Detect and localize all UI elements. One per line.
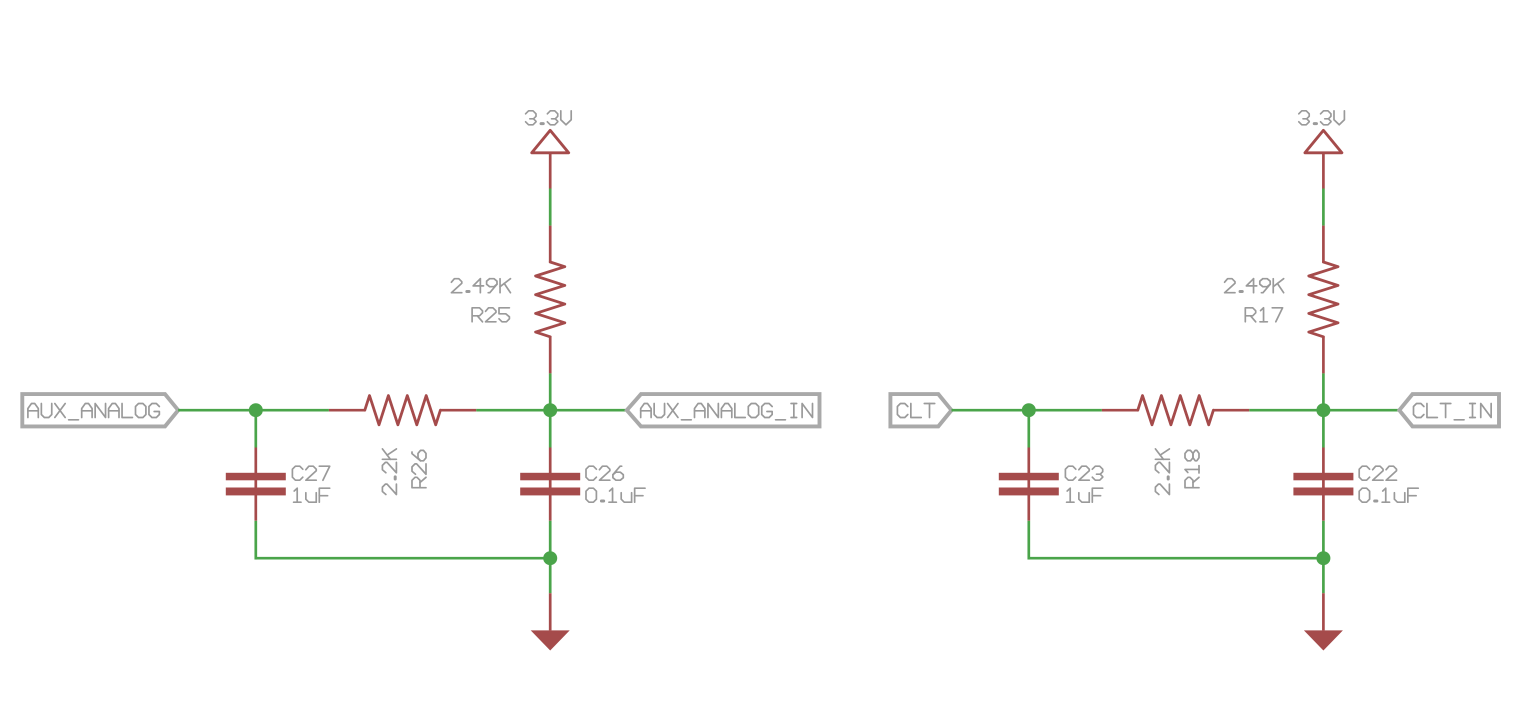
name C27 [292, 466, 329, 480]
net label AUX_ANALOG text [28, 404, 159, 420]
capacitor C23 plates [999, 473, 1059, 496]
value 1uF (C27) [294, 488, 330, 502]
value 0.1uF (C26) [586, 488, 645, 502]
net label CLT_IN text [1414, 404, 1492, 420]
junction node C [1316, 551, 1330, 565]
capacitor C22 pins [1322, 448, 1325, 521]
wire [1249, 409, 1323, 412]
wire [1322, 189, 1325, 226]
value 2.2K (R18) [1155, 449, 1169, 495]
wire [1322, 558, 1325, 593]
wire [1029, 409, 1102, 412]
resistor R18 body [1138, 396, 1214, 425]
wire [254, 521, 257, 560]
wire [1322, 521, 1325, 558]
resistor R18 pin 1 [1102, 409, 1138, 412]
wire [1322, 373, 1325, 410]
junction node B [1316, 403, 1330, 417]
wire [1029, 557, 1324, 560]
value 2.2K (R26) [382, 449, 396, 495]
net label AUX_ANALOG flag [22, 394, 178, 426]
value 1uF (C23) [1067, 488, 1103, 502]
wire [1322, 410, 1325, 447]
resistor R17 body [1309, 262, 1338, 337]
resistor R26 pin 1 [329, 409, 365, 412]
ground symbol GND [531, 630, 570, 650]
wire [178, 409, 256, 412]
wire [549, 558, 552, 593]
net label AUX_ANALOG_IN flag [627, 394, 820, 426]
supply label 3.3V [1299, 111, 1345, 125]
ground symbol GND [1304, 630, 1343, 650]
name R26 [412, 450, 426, 487]
capacitor C26 plates [520, 473, 580, 496]
name C26 [586, 466, 623, 480]
junction node A [249, 403, 263, 417]
capacitor C26 pins [549, 448, 552, 521]
supply +3.3V pin [549, 153, 552, 189]
name C23 [1065, 466, 1102, 480]
capacitor C27 pins [254, 448, 257, 521]
wire [256, 557, 550, 560]
wire [256, 409, 329, 412]
wire [1323, 409, 1399, 412]
name R18 [1185, 450, 1199, 487]
wire [549, 521, 552, 558]
net label CLT_IN flag [1399, 394, 1499, 426]
resistor R17 pin 2 [1322, 337, 1325, 374]
resistor R25 pin 2 [549, 337, 552, 374]
wire [254, 410, 257, 447]
resistor R26 body [365, 396, 441, 425]
wire [476, 409, 550, 412]
resistor R18 pin 2 [1213, 409, 1249, 412]
net label CLT text [897, 404, 934, 418]
value 2.49K (R17) [1225, 279, 1284, 293]
wire [1027, 410, 1030, 447]
supply label 3.3V [526, 111, 572, 125]
resistor R25 pin 1 [549, 226, 552, 262]
net label AUX_ANALOG_IN text [641, 404, 813, 420]
resistor R25 body [536, 262, 565, 337]
resistor R26 pin 2 [440, 409, 476, 412]
wire [549, 189, 552, 226]
name R17 [1245, 308, 1282, 322]
wire [549, 373, 552, 410]
junction node C [543, 551, 557, 565]
name C22 [1359, 466, 1396, 480]
supply +3.3V symbol [532, 130, 569, 153]
junction node B [543, 403, 557, 417]
ground symbol GND pin [1322, 593, 1325, 630]
wire [952, 409, 1029, 412]
supply +3.3V symbol [1305, 130, 1342, 153]
wire [550, 409, 627, 412]
capacitor C23 pins [1027, 448, 1030, 521]
junction node A [1022, 403, 1036, 417]
value 0.1uF (C22) [1359, 488, 1418, 502]
supply +3.3V pin [1322, 153, 1325, 189]
wire [1027, 521, 1030, 560]
name R25 [472, 308, 509, 322]
capacitor C27 plates [226, 473, 286, 496]
wire [549, 410, 552, 447]
resistor R17 pin 1 [1322, 226, 1325, 262]
value 2.49K (R25) [451, 279, 510, 293]
capacitor C22 plates [1293, 473, 1353, 496]
net label CLT flag [890, 394, 951, 426]
ground symbol GND pin [549, 593, 552, 630]
